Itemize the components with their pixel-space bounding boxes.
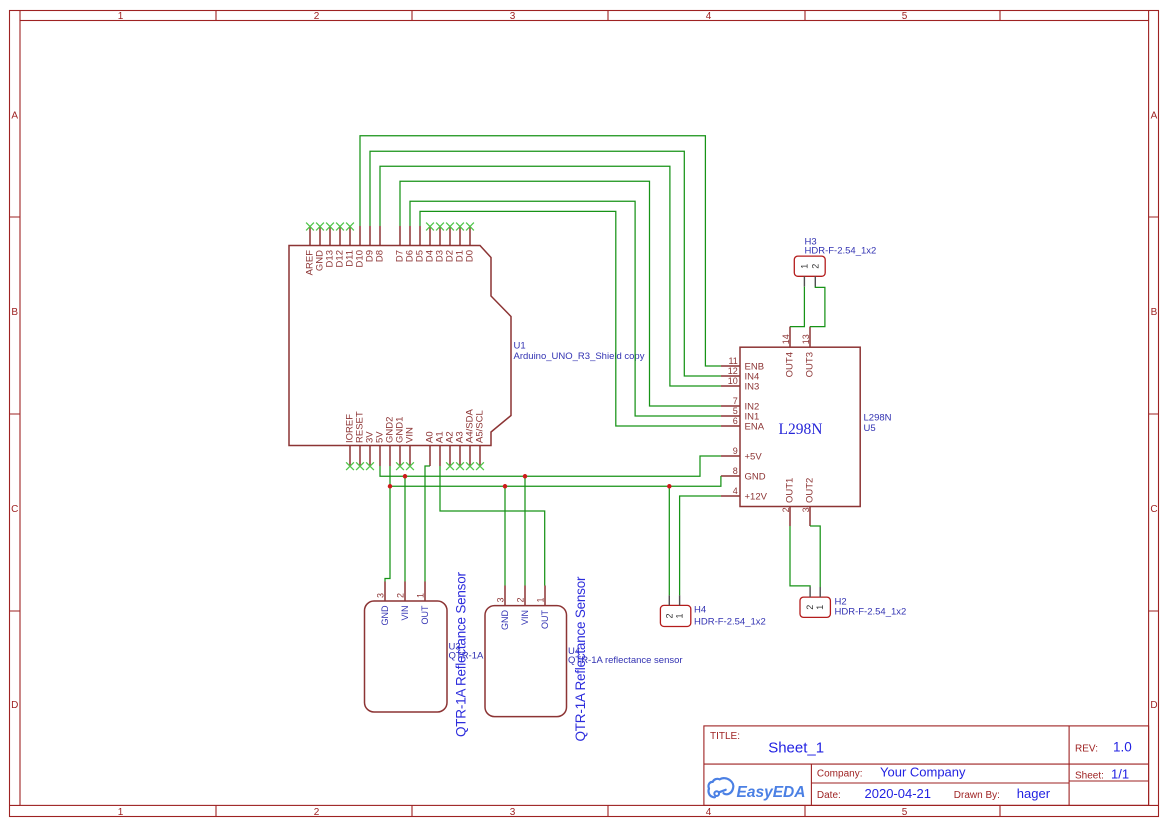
svg-text:QTR-1A Reflectance Sensor: QTR-1A Reflectance Sensor (454, 572, 469, 738)
svg-text:9: 9 (733, 446, 738, 456)
wire GND tap to U3.GND (385, 486, 390, 581)
H3 pin 2 (810, 264, 820, 287)
svg-text:A: A (11, 111, 18, 122)
svg-text:14: 14 (781, 334, 791, 344)
U3 pin 1 OUT (416, 582, 430, 625)
wire net D8 (U1.D8 to U5.IN3) (380, 166, 721, 386)
svg-text:1/1: 1/1 (1111, 766, 1129, 781)
U5 pin 6 ENA (721, 416, 765, 432)
svg-text:HDR-F-2.54_1x2: HDR-F-2.54_1x2 (694, 617, 766, 628)
U5 pin 2 OUT1 (781, 478, 796, 526)
wire net OUT2 (U5.OUT2 to H2.1) (810, 526, 820, 587)
svg-text:Sheet:: Sheet: (1075, 770, 1104, 781)
svg-text:1: 1 (536, 597, 546, 602)
svg-text:HDR-F-2.54_1x2: HDR-F-2.54_1x2 (805, 246, 877, 257)
svg-text:A: A (1151, 111, 1158, 122)
U1 pin D13 (325, 223, 336, 268)
junction on +5V bus at U3.VIN (403, 474, 408, 479)
svg-text:OUT: OUT (540, 610, 550, 630)
svg-text:D: D (1150, 700, 1157, 711)
U5 pin 14 OUT4 (781, 327, 796, 378)
wire net D10 (U1.D10 to U5.ENB) (360, 136, 721, 366)
svg-text:B: B (11, 307, 18, 318)
U5 pin 5 IN1 (721, 406, 759, 422)
svg-text:OUT4: OUT4 (785, 352, 796, 377)
svg-text:Drawn By:: Drawn By: (954, 790, 1000, 801)
U1 pin RESET (355, 411, 366, 470)
TITLE BLOCK (704, 726, 1149, 806)
svg-text:D0: D0 (465, 250, 476, 262)
junction on GND bus at U4.GND (503, 484, 508, 489)
svg-text:4: 4 (706, 11, 712, 22)
U1 pin 5V (375, 431, 386, 466)
U1 pin A0 (425, 431, 436, 466)
U1 pin D3 (435, 223, 446, 263)
connector H4 HDR-F-2.54_1x2 (660, 595, 765, 627)
connector H2 HDR-F-2.54_1x2 (800, 587, 906, 618)
svg-text:2: 2 (810, 264, 820, 269)
U4 pin 3 GND (496, 586, 510, 631)
U1 pin D4 (425, 223, 436, 263)
H4 pin 2 (664, 595, 674, 618)
svg-text:IN3: IN3 (745, 381, 760, 392)
sensor U4 QTR-1A (component body) (485, 576, 683, 742)
svg-text:hager: hager (1017, 786, 1051, 801)
svg-text:3: 3 (496, 597, 506, 602)
svg-text:L298N: L298N (864, 413, 892, 424)
U1 pin D2 (445, 223, 456, 263)
U5 pin 11 ENB (721, 356, 764, 372)
svg-text:2: 2 (805, 605, 815, 610)
svg-text:EasyEDA: EasyEDA (737, 784, 806, 801)
svg-text:C: C (1150, 504, 1157, 515)
U5 pin 7 IN2 (721, 396, 759, 412)
svg-text:1: 1 (815, 605, 825, 610)
svg-text:1: 1 (675, 613, 685, 618)
svg-text:OUT2: OUT2 (805, 478, 816, 503)
U1 pin D10 (355, 226, 366, 267)
svg-text:Sheet_1: Sheet_1 (768, 739, 824, 756)
U1 pin D8 (375, 226, 386, 262)
svg-text:H4: H4 (694, 605, 706, 616)
svg-text:VIN: VIN (520, 610, 530, 625)
U5 pin 13 OUT3 (801, 327, 816, 378)
svg-text:D: D (11, 700, 18, 711)
wire net +12V (U5.+12V to H4.1) (680, 496, 721, 595)
svg-text:OUT: OUT (420, 605, 430, 625)
svg-text:GND: GND (380, 605, 390, 626)
H2 pin 2 (805, 587, 815, 610)
svg-text:VIN: VIN (400, 606, 410, 621)
svg-text:5: 5 (733, 406, 738, 416)
U5 pin 9 +5V (721, 446, 762, 462)
svg-text:3: 3 (376, 593, 386, 598)
svg-text:5: 5 (902, 807, 908, 818)
svg-text:2: 2 (664, 613, 674, 618)
U1 pin D11 (345, 223, 356, 267)
wire GND tap to U4.GND (504, 486, 506, 585)
wire net GND bus (U1.GND2 to U5.GND) (390, 466, 721, 486)
U1 pin GND2 (385, 417, 396, 466)
svg-text:A5/SCL: A5/SCL (475, 410, 486, 443)
U1 pin VIN (405, 427, 416, 470)
connector H3 HDR-F-2.54_1x2 (794, 237, 876, 287)
svg-text:10: 10 (728, 376, 738, 386)
U5 pin 3 OUT2 (801, 478, 816, 526)
svg-text:Date:: Date: (817, 790, 841, 801)
svg-text:3: 3 (801, 507, 811, 512)
svg-text:D8: D8 (375, 250, 386, 262)
U1 pin D7 (395, 226, 406, 262)
U1 pin 3V (365, 431, 376, 470)
U1 pin GND (315, 223, 326, 272)
WIRES (360, 136, 825, 595)
svg-text:2: 2 (516, 597, 526, 602)
U5 pin 8 GND (721, 466, 766, 482)
svg-text:VIN: VIN (405, 427, 416, 443)
U1 pin D1 (455, 223, 466, 263)
EasyEDA logo (708, 778, 733, 797)
U3 pin 2 VIN (396, 582, 410, 621)
H3 pin 1 (799, 264, 809, 287)
svg-text:4: 4 (706, 807, 712, 818)
svg-text:B: B (1151, 307, 1158, 318)
U1 pin A2 (445, 431, 456, 470)
U1 pin GND1 (395, 417, 406, 471)
wire net D5 (U1.D5 to U5.ENA) (420, 211, 721, 426)
svg-text:Arduino_UNO_R3_Shield copy: Arduino_UNO_R3_Shield copy (514, 351, 645, 362)
op-amp U1 Arduino_UNO_R3_Shield copy (component body) (289, 223, 645, 471)
svg-text:GND: GND (500, 610, 510, 631)
wire +5V tap to U4.VIN (524, 476, 526, 585)
svg-text:1: 1 (416, 593, 426, 598)
U5 pin 10 IN3 (721, 376, 759, 392)
wire net D9 (U1.D9 to U5.IN4) (370, 151, 721, 376)
svg-text:OUT3: OUT3 (805, 352, 816, 377)
svg-text:2: 2 (314, 11, 320, 22)
svg-text:4: 4 (733, 486, 738, 496)
junction on GND bus at U3.GND (388, 484, 393, 489)
svg-text:12: 12 (728, 366, 738, 376)
U1 pin A4/SDA (465, 409, 476, 471)
svg-text:HDR-F-2.54_1x2: HDR-F-2.54_1x2 (835, 607, 907, 618)
svg-text:L298N: L298N (779, 421, 823, 438)
U1 pin AREF (305, 223, 316, 276)
svg-text:8: 8 (733, 466, 738, 476)
svg-text:TITLE:: TITLE: (710, 731, 740, 742)
U1 pin D6 (405, 226, 416, 262)
sensor U3 QTR-1A (component body) (365, 572, 485, 738)
wire +5V tap to U3.VIN (404, 476, 406, 581)
svg-text:+12V: +12V (745, 491, 768, 502)
svg-text:1: 1 (118, 11, 124, 22)
svg-text:ENA: ENA (745, 421, 765, 432)
U1 pin A3 (455, 431, 466, 470)
wire net +5V bus (U1.5V to U5.+5V) (380, 456, 721, 476)
svg-text:7: 7 (733, 396, 738, 406)
svg-text:2020-04-21: 2020-04-21 (865, 786, 932, 801)
U5 pin 4 +12V (721, 486, 768, 502)
wire net OUT4 (U5.OUT4 to H3.1) (790, 287, 804, 327)
U3 pin 3 GND (376, 582, 390, 626)
junction on +5V bus at U4.VIN (523, 474, 528, 479)
IC U5 L298N (component body) (721, 327, 892, 526)
svg-text:+5V: +5V (745, 451, 763, 462)
wire GND tap to H4.2 (668, 486, 670, 595)
svg-text:QTR-1A Reflectance Sensor: QTR-1A Reflectance Sensor (573, 576, 588, 742)
svg-text:Your Company: Your Company (880, 765, 966, 780)
wire net D7 (U1.D7 to U5.IN2) (400, 181, 721, 406)
U1 pin D0 (465, 223, 476, 263)
svg-text:11: 11 (728, 356, 737, 366)
svg-text:REV:: REV: (1075, 744, 1098, 755)
svg-text:U1: U1 (514, 341, 526, 352)
svg-text:13: 13 (801, 334, 811, 344)
svg-text:2: 2 (314, 807, 320, 818)
U4 pin 2 VIN (516, 586, 530, 626)
U4 pin 1 OUT (536, 586, 550, 630)
svg-text:3: 3 (510, 807, 516, 818)
svg-text:1: 1 (799, 264, 809, 269)
U1 pin D9 (365, 226, 376, 262)
U1 pin IOREF (345, 414, 356, 470)
svg-text:1.0: 1.0 (1113, 740, 1132, 755)
svg-text:2: 2 (396, 593, 406, 598)
svg-text:6: 6 (733, 416, 738, 426)
U1 pin D12 (335, 223, 346, 268)
svg-text:5: 5 (902, 11, 908, 22)
wire net D6 (U1.D6 to U5.IN1) (410, 201, 721, 416)
U5 pin 12 IN4 (721, 366, 759, 382)
H4 pin 1 (675, 595, 685, 618)
svg-text:U5: U5 (864, 423, 876, 434)
wire net A1 (U1.A1 to U4.OUT) (440, 466, 545, 586)
svg-text:OUT1: OUT1 (785, 478, 796, 503)
svg-text:3: 3 (510, 11, 516, 22)
H2 pin 1 (815, 587, 825, 610)
junction on GND bus at H4.2 (667, 484, 672, 489)
svg-text:GND: GND (745, 471, 766, 482)
U1 pin A1 (435, 431, 446, 466)
wire net A0 (U1.A0 to U3.OUT) (425, 466, 430, 582)
wire net OUT1 (U5.OUT1 to H2.2) (790, 526, 810, 587)
wire net OUT3 (U5.OUT3 to H3.2) (810, 287, 825, 327)
U1 pin D5 (415, 226, 426, 262)
svg-text:C: C (11, 504, 18, 515)
svg-text:2: 2 (781, 507, 791, 512)
svg-text:Company:: Company: (817, 769, 863, 780)
svg-text:1: 1 (118, 807, 124, 818)
U1 pin A5/SCL (475, 410, 486, 470)
